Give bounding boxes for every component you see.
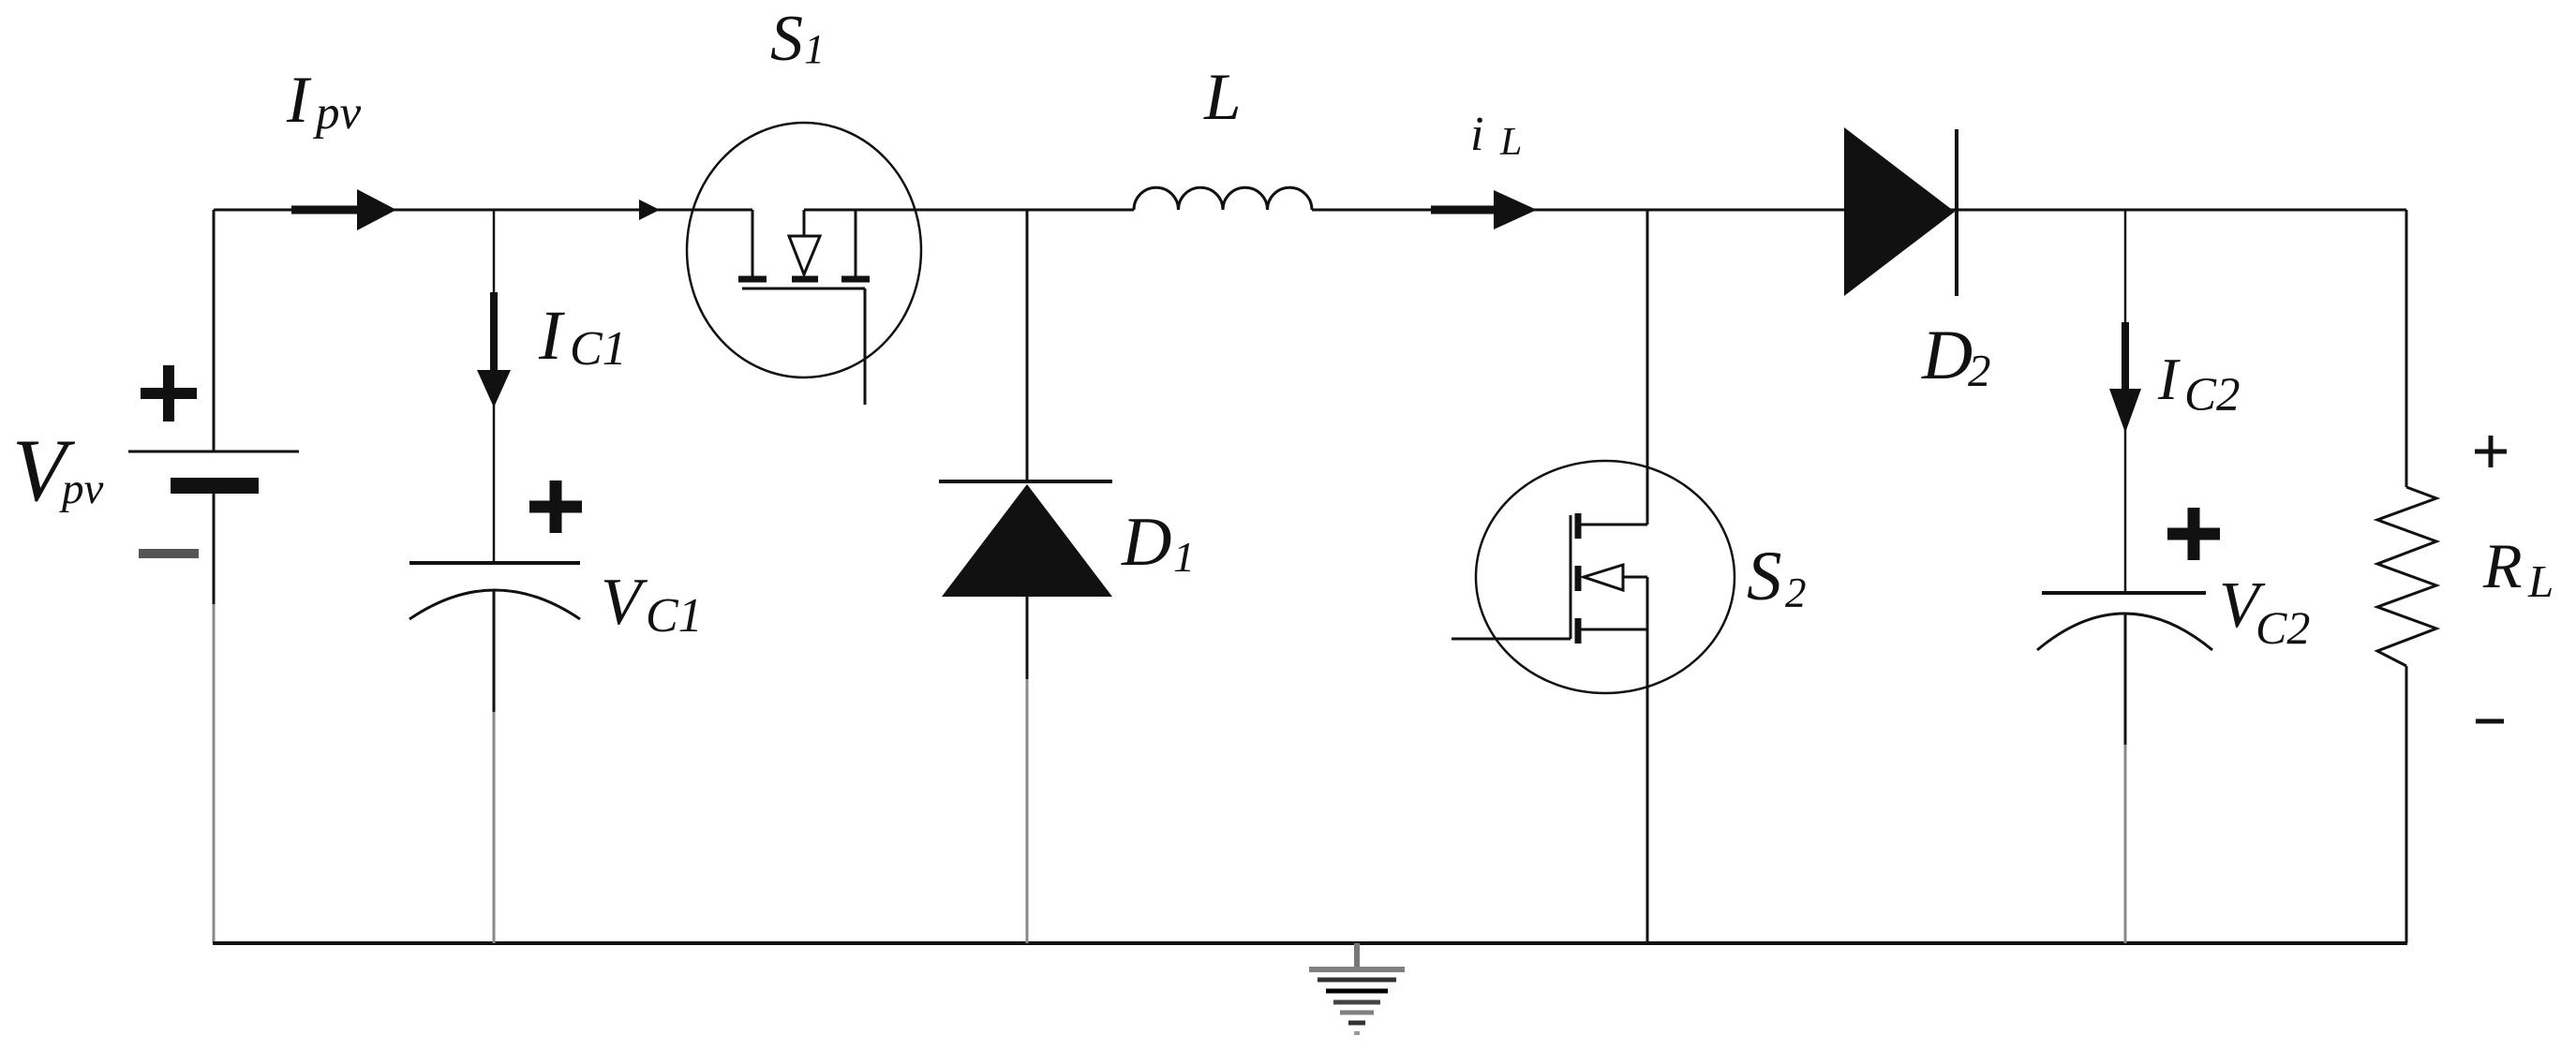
svg-text:C2: C2 [2256, 601, 2310, 654]
svg-text:1: 1 [1173, 533, 1195, 581]
svg-text:I: I [2157, 346, 2181, 412]
svg-text:S: S [1747, 538, 1782, 615]
svg-text:C1: C1 [570, 322, 627, 376]
svg-text:L: L [2527, 555, 2554, 607]
svg-text:pv: pv [313, 87, 362, 140]
svg-text:I: I [286, 64, 312, 137]
svg-text:2: 2 [1968, 345, 1991, 396]
svg-text:D: D [1121, 504, 1171, 581]
svg-text:2: 2 [1785, 569, 1807, 616]
svg-text:C1: C1 [646, 589, 703, 643]
svg-text:I: I [538, 297, 565, 375]
svg-text:i: i [1470, 108, 1483, 161]
svg-text:S: S [770, 3, 803, 75]
svg-text:L: L [1203, 61, 1242, 134]
svg-text:L: L [1499, 121, 1522, 164]
svg-text:pv: pv [59, 465, 104, 513]
svg-text:C2: C2 [2184, 369, 2241, 421]
svg-text:R: R [2482, 530, 2523, 601]
svg-text:1: 1 [804, 26, 825, 72]
svg-text:V: V [601, 566, 648, 639]
svg-text:D: D [1921, 317, 1973, 394]
